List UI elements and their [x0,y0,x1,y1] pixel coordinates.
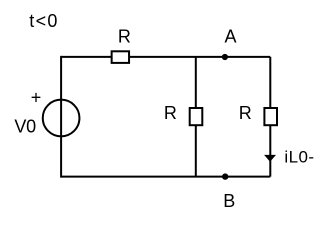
svg-text:V0: V0 [14,117,36,137]
svg-text:R: R [164,103,177,123]
svg-text:B: B [223,191,235,211]
svg-text:A: A [225,26,237,46]
svg-text:+: + [31,88,42,108]
svg-text:R: R [239,103,252,123]
svg-text:t<0: t<0 [29,11,58,31]
svg-text:iL0-: iL0- [284,147,314,166]
svg-text:R: R [118,26,131,46]
